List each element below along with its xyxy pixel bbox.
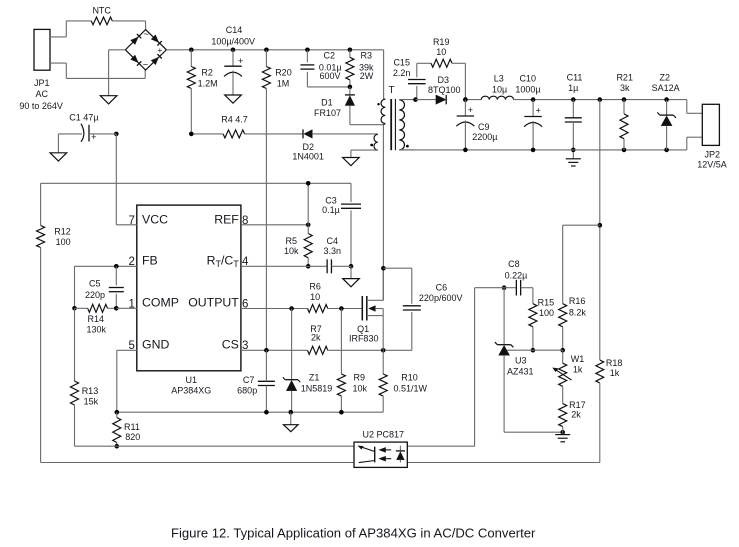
transformer primary winding (377, 50, 385, 125)
secondary bottom rail (399, 137, 702, 152)
node D3 cathode (463, 97, 468, 102)
capacitor C6 (383, 268, 462, 350)
svg-text:OUTPUT: OUTPUT (188, 296, 239, 310)
svg-text:D3: D3 (438, 75, 450, 85)
svg-text:R16: R16 (569, 296, 586, 306)
svg-text:C5: C5 (89, 279, 101, 289)
resistor R14 (72, 304, 118, 334)
capacitor C2 (300, 50, 350, 87)
resistor R15 (529, 288, 554, 353)
wire R16 branch (563, 225, 600, 304)
svg-text:2200µ: 2200µ (472, 132, 497, 142)
svg-text:2k: 2k (311, 333, 321, 343)
optocoupler U2 PC817 (354, 430, 407, 468)
pin 5 label (128, 340, 134, 352)
svg-text:3k: 3k (620, 83, 630, 93)
thermistor NTC (91, 6, 112, 25)
svg-text:3.3n: 3.3n (324, 246, 342, 256)
svg-text:90 to 264V: 90 to 264V (19, 101, 63, 111)
svg-text:R11: R11 (124, 422, 140, 432)
wire opto emitter line (41, 462, 354, 464)
svg-text:C4: C4 (327, 236, 339, 246)
ground (aux winding) (343, 158, 360, 166)
inductor L3 (481, 74, 513, 100)
svg-text:R21: R21 (616, 73, 633, 83)
svg-text:8.2k: 8.2k (569, 307, 587, 317)
pin 8 label (242, 215, 248, 227)
wire U3 anode to ground (504, 430, 565, 435)
svg-text:1.2M: 1.2M (198, 79, 218, 89)
ground (C1) (50, 134, 67, 161)
node HV rail junctions (189, 48, 352, 53)
svg-text:+: + (536, 105, 541, 115)
svg-text:1N4001: 1N4001 (292, 152, 324, 162)
capacitor C11 (565, 73, 583, 150)
pin 7 label (128, 215, 134, 227)
svg-text:+: + (157, 45, 162, 55)
capacitor C8 (502, 259, 533, 295)
svg-text:680p: 680p (237, 386, 257, 396)
transformer T core (388, 85, 395, 150)
pin 2 label (128, 256, 134, 268)
svg-text:C15: C15 (393, 58, 410, 68)
svg-text:220p/600V: 220p/600V (419, 293, 463, 303)
svg-text:C1 47µ: C1 47µ (69, 113, 98, 123)
ground rail (115, 410, 384, 415)
svg-text:1k: 1k (573, 365, 583, 375)
svg-text:AP384XG: AP384XG (171, 386, 211, 396)
resistor R13 (71, 308, 99, 446)
svg-text:NTC: NTC (92, 6, 111, 16)
svg-text:AC: AC (35, 89, 48, 99)
capacitor C7 (237, 350, 275, 414)
resistor R7 (308, 324, 412, 355)
svg-text:1k: 1k (610, 368, 620, 378)
svg-text:100: 100 (56, 237, 71, 247)
ground (rail) (284, 412, 299, 432)
resistor R4 (191, 114, 247, 137)
svg-text:2k: 2k (571, 410, 581, 420)
svg-text:IRF830: IRF830 (349, 333, 379, 343)
svg-text:R17: R17 (569, 400, 586, 410)
svg-text:1N5819: 1N5819 (301, 383, 333, 393)
resistor R18 (407, 358, 622, 462)
potentiometer W1 (553, 350, 585, 386)
svg-text:220p: 220p (85, 290, 105, 300)
svg-text:C10: C10 (519, 74, 536, 84)
svg-text:100: 100 (539, 308, 554, 318)
pin 4 label (242, 256, 249, 268)
svg-text:COMP: COMP (142, 296, 179, 310)
resistor R11 (113, 412, 140, 448)
svg-text:10k: 10k (353, 383, 368, 393)
resistor R21 (616, 73, 633, 150)
svg-text:R4 4.7: R4 4.7 (221, 114, 248, 124)
zener Z2 SA12A (652, 73, 680, 150)
wire D3 to L3 (465, 99, 481, 101)
svg-text:Z2: Z2 (660, 73, 671, 83)
svg-text:1000µ: 1000µ (515, 84, 540, 94)
svg-text:U1: U1 (186, 375, 198, 385)
controller U1 AP384XG box (137, 205, 241, 396)
svg-text:D1: D1 (321, 97, 333, 107)
resistor R2 (187, 50, 217, 134)
wire REF long line (41, 182, 351, 184)
svg-text:Figure 12. Typical Application: Figure 12. Typical Application of AP384X… (171, 525, 536, 540)
resistor R9 (337, 309, 367, 415)
resistor R5 (284, 225, 312, 269)
svg-text:VCC: VCC (142, 212, 168, 226)
svg-text:10k: 10k (284, 246, 299, 256)
pin 6 label (242, 298, 248, 310)
wire D3 anode (416, 99, 436, 101)
svg-text:SA12A: SA12A (652, 83, 680, 93)
wire NTC to bridge top (112, 21, 145, 30)
svg-text:130k: 130k (87, 324, 107, 334)
diode D1 FR107 (314, 87, 355, 125)
capacitor C3 (322, 183, 361, 268)
wire JP1 pin1 to NTC (50, 21, 91, 37)
svg-text:100µ/400V: 100µ/400V (211, 36, 255, 46)
resistor R6 (308, 282, 363, 313)
svg-text:+: + (238, 56, 243, 66)
capacitor C14 (211, 25, 255, 95)
capacitor C5 (85, 266, 124, 308)
svg-text:~: ~ (143, 29, 149, 40)
svg-text:R15: R15 (538, 297, 555, 307)
svg-text:R19: R19 (433, 37, 450, 47)
wire bridge minus to ground (109, 50, 126, 96)
capacitor C4 (324, 236, 351, 273)
transformer aux winding (351, 134, 378, 157)
svg-text:R5: R5 (286, 236, 298, 246)
resistor R16 (559, 296, 587, 353)
pin 3 label (242, 340, 248, 352)
svg-text:T: T (388, 85, 394, 96)
svg-text:C11: C11 (567, 73, 583, 83)
transformer secondary winding (399, 100, 415, 150)
diode D3 8TQ100 (428, 75, 461, 105)
svg-text:C3: C3 (325, 196, 337, 206)
svg-text:R18: R18 (606, 358, 623, 368)
pin 1 label (128, 298, 134, 310)
svg-text:600V: 600V (319, 71, 340, 81)
svg-text:D2: D2 (303, 142, 315, 152)
resistor R19 (431, 37, 452, 67)
node snubber (348, 85, 353, 90)
svg-text:Z1: Z1 (309, 373, 320, 383)
svg-text:C7: C7 (243, 375, 255, 385)
svg-text:R3: R3 (361, 51, 373, 61)
svg-text:2W: 2W (360, 71, 374, 81)
wire REF pin (241, 181, 311, 227)
connector JP1 (19, 29, 63, 111)
svg-text:U3: U3 (515, 356, 527, 366)
svg-text:R12: R12 (54, 227, 71, 237)
capacitor C1 (58, 113, 116, 143)
svg-text:2.2n: 2.2n (393, 68, 411, 78)
svg-text:JP1: JP1 (34, 78, 50, 88)
resistor R10 (379, 350, 427, 412)
svg-text:R6: R6 (309, 282, 321, 292)
svg-text:1µ: 1µ (568, 83, 578, 93)
svg-text:JP2: JP2 (705, 149, 721, 159)
shunt regulator U3 AZ431 (495, 288, 563, 433)
caption (171, 525, 536, 540)
svg-text:L3: L3 (494, 74, 504, 84)
svg-text:R2: R2 (201, 68, 213, 78)
svg-text:0.1µ: 0.1µ (322, 205, 340, 215)
bridge rectifier BR1 (125, 29, 166, 70)
svg-text:R9: R9 (354, 373, 366, 383)
wire RT/CT pin (241, 265, 327, 267)
ground (bridge) (100, 96, 117, 104)
wire JP1 pin2 to bridge bottom (50, 63, 145, 78)
transistor Q1 IRF830 (349, 268, 383, 350)
svg-text:C14: C14 (226, 25, 243, 35)
svg-text:0.22µ: 0.22µ (505, 270, 528, 280)
diode D2 1N4001 (245, 129, 378, 161)
wire U3 cathode to opto (407, 288, 504, 447)
svg-text:12V/5A: 12V/5A (697, 159, 727, 169)
wire R20 to CS line (265, 89, 267, 351)
svg-text:10: 10 (436, 47, 446, 57)
ground (R17 earth) (555, 432, 570, 442)
connector JP2 (697, 104, 727, 169)
svg-text:1M: 1M (277, 79, 290, 89)
svg-text:REF: REF (214, 212, 239, 226)
svg-text:R14: R14 (88, 314, 105, 324)
svg-text:FR107: FR107 (314, 108, 341, 118)
svg-text:10: 10 (310, 292, 320, 302)
svg-text:C9: C9 (478, 122, 490, 132)
resistor R12 (37, 183, 71, 462)
wire bridge plus to HV rail (166, 49, 383, 51)
svg-text:8TQ100: 8TQ100 (428, 85, 461, 95)
svg-text:+: + (468, 105, 473, 115)
svg-text:C2: C2 (324, 51, 336, 61)
wire D1 to primary bottom (350, 124, 384, 126)
wire VCC supply (116, 134, 137, 225)
svg-text:GND: GND (142, 338, 169, 352)
svg-text:15k: 15k (84, 396, 99, 406)
schottky Z1 1N5819 (283, 309, 332, 415)
svg-text:AZ431: AZ431 (507, 367, 534, 377)
svg-text:0.51/1W: 0.51/1W (394, 383, 428, 393)
svg-text:R13: R13 (82, 386, 99, 396)
wire OUTPUT pin (241, 306, 308, 311)
resistor R20 (262, 50, 291, 89)
svg-text:FB: FB (142, 254, 158, 268)
svg-text:C6: C6 (436, 283, 448, 293)
wire 12V sense line (598, 97, 603, 360)
svg-text:+: + (91, 132, 96, 142)
svg-text:CS: CS (222, 338, 239, 352)
wire GND pin (117, 350, 137, 412)
capacitor C10 (515, 74, 542, 150)
svg-text:R20: R20 (275, 68, 292, 78)
svg-text:~: ~ (143, 60, 149, 71)
resistor R3 (346, 50, 374, 87)
svg-text:C8: C8 (508, 259, 520, 269)
ground (C14) (225, 95, 242, 103)
ground (C3/C4) (343, 266, 360, 287)
node D3 anode (413, 97, 418, 102)
svg-text:W1: W1 (571, 354, 585, 364)
node C1-R2-R4 (114, 132, 194, 137)
svg-text:U2 PC817: U2 PC817 (363, 430, 405, 440)
wire L3 to JP2 (514, 100, 703, 114)
svg-text:Q1: Q1 (357, 324, 369, 334)
svg-text:820: 820 (125, 432, 140, 442)
capacitor C9 (456, 97, 497, 150)
wire R19 to D3 cathode (452, 63, 465, 99)
wire drain to transformer (381, 125, 386, 301)
ground (C11 earth) (566, 148, 581, 166)
svg-text:R10: R10 (401, 373, 418, 383)
capacitor C15 (393, 58, 431, 100)
svg-text:10µ: 10µ (492, 84, 507, 94)
resistor R17 (559, 386, 586, 432)
wire CS pin (241, 348, 308, 353)
wire FB pin (75, 264, 137, 308)
wire COMP pin (116, 307, 137, 309)
wire opto collector line (75, 445, 355, 447)
